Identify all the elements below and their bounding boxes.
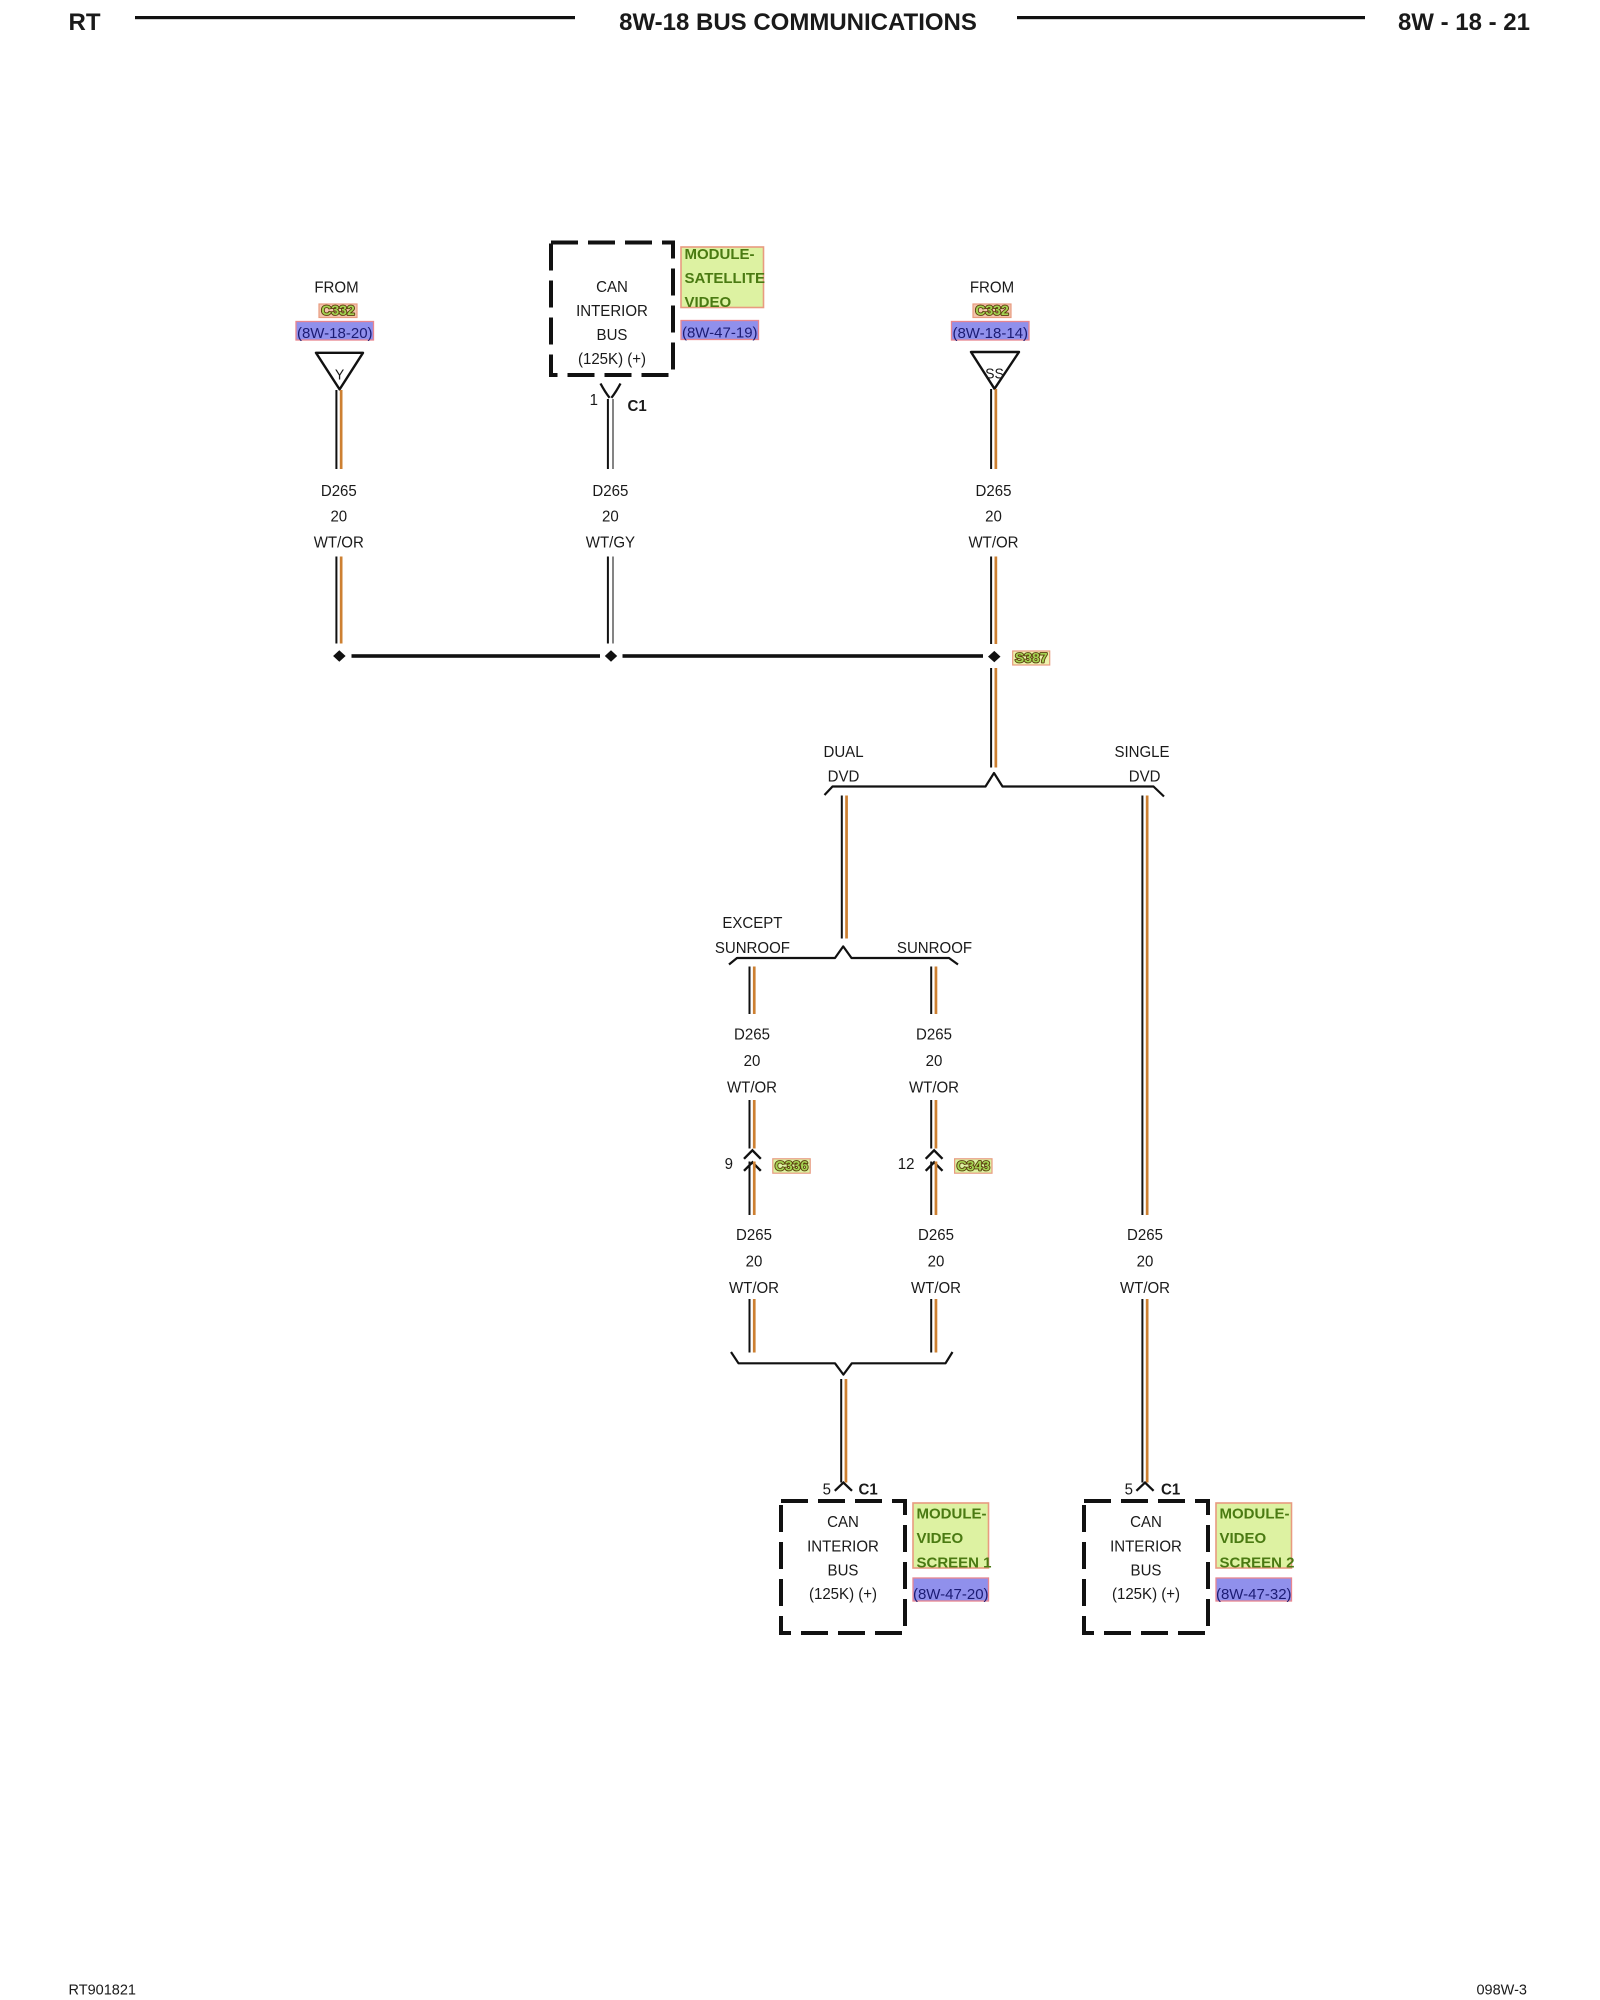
splice diamond (left)	[333, 650, 346, 661]
svg-text:INTERIOR: INTERIOR	[576, 303, 648, 321]
svg-text:EXCEPT: EXCEPT	[722, 915, 783, 933]
page ref (8W-47-32)	[1216, 1578, 1292, 1603]
module box MODULE-SATELLITE VIDEO	[551, 243, 673, 376]
svg-text:SCREEN 2: SCREEN 2	[1220, 1555, 1295, 1572]
wire DUAL branch	[841, 796, 848, 939]
module name MODULE-VIDEO SCREEN 1	[913, 1503, 992, 1572]
svg-text:INTERIOR: INTERIOR	[1110, 1538, 1182, 1556]
svg-text:9: 9	[725, 1156, 733, 1174]
page ref (8W-47-19)	[681, 321, 759, 342]
svg-text:(125K) (+): (125K) (+)	[809, 1586, 877, 1604]
svg-text:D265: D265	[1127, 1227, 1163, 1245]
wire SINGLE branch upper	[1141, 796, 1148, 1216]
wire EXCEPT branch seg1	[749, 967, 756, 1015]
wire SUNROOF branch seg2	[930, 1100, 937, 1149]
svg-text:D265: D265	[916, 1026, 952, 1044]
svg-text:8W-18 BUS COMMUNICATIONS: 8W-18 BUS COMMUNICATIONS	[619, 9, 977, 36]
svg-text:(8W-47-32): (8W-47-32)	[1216, 1586, 1292, 1603]
connector ref C332 (left)	[319, 302, 357, 318]
svg-text:CAN: CAN	[1130, 1514, 1162, 1532]
splice ref S387	[1013, 650, 1050, 666]
svg-text:DVD: DVD	[828, 768, 860, 786]
split brace DUAL/SINGLE	[825, 773, 1165, 797]
wire to video screen 1	[840, 1379, 847, 1483]
svg-text:D265: D265	[734, 1026, 770, 1044]
svg-text:BUS: BUS	[828, 1562, 859, 1580]
svg-text:5: 5	[823, 1481, 831, 1499]
module box MODULE-VIDEO SCREEN 1	[781, 1501, 905, 1633]
wire D265 20 WT/GY (mid col, lower)	[607, 557, 614, 644]
svg-text:WT/OR: WT/OR	[968, 534, 1018, 552]
connector ref C332 (right)	[973, 302, 1011, 318]
svg-text:VIDEO: VIDEO	[685, 294, 732, 311]
wire SUNROOF branch seg1	[930, 967, 937, 1015]
svg-text:CAN: CAN	[596, 279, 628, 297]
svg-text:(8W-47-20): (8W-47-20)	[913, 1586, 989, 1603]
svg-text:S387: S387	[1015, 650, 1048, 666]
svg-text:SATELLITE: SATELLITE	[685, 270, 766, 287]
svg-text:WT/OR: WT/OR	[729, 1279, 779, 1297]
svg-text:VIDEO: VIDEO	[917, 1530, 964, 1547]
splice diamond (mid)	[605, 650, 617, 661]
svg-text:WT/OR: WT/OR	[727, 1079, 777, 1097]
connector C1 pin 5 tent symbol (screen 1)	[835, 1483, 852, 1491]
svg-text:SCREEN 1: SCREEN 1	[917, 1555, 992, 1572]
svg-text:20: 20	[744, 1053, 761, 1071]
page ref (8W-47-20)	[913, 1578, 989, 1603]
svg-text:SUNROOF: SUNROOF	[897, 940, 972, 958]
wire SUNROOF branch seg3	[930, 1162, 937, 1216]
wire below S387	[990, 668, 997, 768]
inline connector C343 chevrons	[926, 1150, 943, 1171]
svg-text:(125K) (+): (125K) (+)	[578, 351, 646, 369]
merge brace (except+sunroof)	[731, 1352, 953, 1375]
wire EXCEPT branch seg4	[749, 1299, 756, 1353]
svg-text:098W-3: 098W-3	[1476, 1983, 1527, 1999]
svg-text:C1: C1	[859, 1481, 879, 1499]
svg-text:20: 20	[985, 508, 1002, 526]
page ref (8W-18-14)	[952, 322, 1030, 342]
svg-text:D265: D265	[736, 1227, 772, 1245]
svg-text:SINGLE: SINGLE	[1114, 744, 1169, 762]
svg-text:MODULE-: MODULE-	[1220, 1506, 1290, 1523]
svg-text:WT/OR: WT/OR	[1120, 1279, 1170, 1297]
takeout triangle Y	[316, 353, 363, 390]
wire EXCEPT branch seg3	[749, 1162, 756, 1216]
svg-text:D265: D265	[321, 482, 357, 500]
wire D265 20 WT/OR (right col, upper)	[990, 389, 997, 469]
svg-text:WT/OR: WT/OR	[911, 1279, 961, 1297]
svg-text:8W - 18 - 21: 8W - 18 - 21	[1398, 9, 1530, 36]
svg-text:1: 1	[590, 392, 598, 410]
wire D265 20 WT/GY (mid col, upper)	[607, 399, 614, 469]
svg-text:WT/GY: WT/GY	[586, 534, 636, 552]
svg-text:C1: C1	[1161, 1481, 1181, 1499]
svg-text:D265: D265	[976, 482, 1012, 500]
svg-text:MODULE-: MODULE-	[685, 246, 755, 263]
connector C1 pin 1 fork symbol	[601, 384, 621, 398]
wire SINGLE branch lower	[1141, 1299, 1148, 1483]
svg-text:(8W-47-19): (8W-47-19)	[682, 324, 758, 341]
svg-text:C332: C332	[321, 302, 355, 318]
svg-text:(8W-18-14): (8W-18-14)	[952, 325, 1028, 342]
svg-text:MODULE-: MODULE-	[917, 1506, 987, 1523]
svg-text:20: 20	[330, 508, 347, 526]
wire D265 20 WT/OR (left col, lower)	[335, 557, 342, 644]
svg-text:C332: C332	[975, 302, 1009, 318]
svg-text:20: 20	[928, 1253, 945, 1271]
bus wire horizontal segment (right)	[623, 654, 984, 658]
module name MODULE-SATELLITE VIDEO	[681, 246, 765, 311]
svg-text:20: 20	[1137, 1253, 1154, 1271]
header rule left	[135, 16, 575, 19]
svg-text:CAN: CAN	[827, 1514, 859, 1532]
svg-text:SUNROOF: SUNROOF	[715, 940, 790, 958]
svg-text:(8W-18-20): (8W-18-20)	[297, 325, 373, 342]
takeout triangle SS	[971, 352, 1019, 389]
wire EXCEPT branch seg2	[749, 1100, 756, 1149]
svg-text:BUS: BUS	[597, 327, 628, 345]
svg-text:DUAL: DUAL	[823, 744, 863, 762]
connector C1 pin 5 tent symbol (screen 2)	[1136, 1483, 1153, 1491]
wire SUNROOF branch seg4	[930, 1299, 937, 1353]
svg-text:INTERIOR: INTERIOR	[807, 1538, 879, 1556]
svg-text:WT/OR: WT/OR	[909, 1079, 959, 1097]
svg-text:FROM: FROM	[314, 279, 358, 297]
svg-text:VIDEO: VIDEO	[1220, 1530, 1267, 1547]
bus wire horizontal segment (left)	[352, 654, 601, 658]
svg-text:DVD: DVD	[1129, 768, 1161, 786]
inline connector C336 chevrons	[744, 1150, 761, 1171]
svg-text:12: 12	[898, 1156, 915, 1174]
svg-text:C1: C1	[628, 398, 648, 416]
wire D265 20 WT/OR (left col, upper)	[335, 390, 342, 469]
connector ref C343	[955, 1158, 992, 1174]
split brace EXCEPT/SUNROOF	[729, 946, 958, 964]
svg-text:C336: C336	[775, 1158, 809, 1174]
svg-text:SS: SS	[985, 366, 1004, 382]
page ref (8W-18-20)	[296, 322, 374, 342]
splice diamond S387	[988, 651, 1001, 662]
svg-text:D265: D265	[592, 482, 628, 500]
svg-text:BUS: BUS	[1131, 1562, 1162, 1580]
svg-text:20: 20	[926, 1053, 943, 1071]
svg-text:C343: C343	[957, 1158, 991, 1174]
svg-text:WT/OR: WT/OR	[314, 534, 364, 552]
svg-text:20: 20	[602, 508, 619, 526]
svg-text:FROM: FROM	[970, 279, 1014, 297]
svg-text:Y: Y	[335, 367, 345, 383]
svg-text:5: 5	[1125, 1481, 1133, 1499]
svg-text:D265: D265	[918, 1227, 954, 1245]
wire D265 20 WT/OR (right col, mid)	[990, 557, 997, 645]
module name MODULE-VIDEO SCREEN 2	[1216, 1503, 1295, 1572]
svg-text:20: 20	[746, 1253, 763, 1271]
svg-text:RT901821: RT901821	[69, 1983, 136, 1999]
svg-text:RT: RT	[69, 9, 101, 36]
module box MODULE-VIDEO SCREEN 2	[1084, 1501, 1208, 1633]
connector ref C336	[773, 1158, 810, 1174]
svg-text:(125K) (+): (125K) (+)	[1112, 1586, 1180, 1604]
header rule right	[1017, 16, 1365, 19]
